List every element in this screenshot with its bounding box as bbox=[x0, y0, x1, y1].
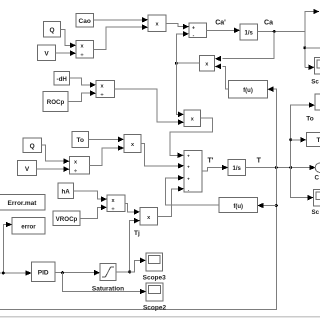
svg-text:+: + bbox=[187, 153, 190, 158]
svg-text:1/s: 1/s bbox=[233, 166, 242, 172]
svg-text:Scope2: Scope2 bbox=[143, 305, 167, 312]
sum block Ca' bbox=[189, 23, 207, 39]
wire branch up to top-right block bbox=[305, 9, 320, 32]
wire saturation output to node bbox=[116, 270, 131, 273]
svg-text:Cao: Cao bbox=[79, 18, 91, 25]
wire product to sum bbox=[166, 24, 189, 30]
fcn block f(u) Arrhenius (mirrored) bbox=[229, 81, 268, 99]
product block A (To*Q/V) bbox=[124, 135, 141, 153]
integrator 1/s (T) bbox=[228, 160, 246, 176]
wire product C output to node bbox=[175, 62, 200, 65]
product block B (heat of reaction) bbox=[184, 110, 201, 127]
wire node to error bbox=[3, 222, 12, 273]
divide block Q/V lower bbox=[70, 157, 90, 175]
wire V to divide bbox=[56, 50, 77, 56]
svg-text:Ca': Ca' bbox=[215, 20, 226, 27]
wire T branch to T display block bbox=[289, 137, 306, 143]
product block Tj bbox=[140, 208, 158, 226]
product block x (Cao*Q/V) bbox=[148, 15, 166, 32]
svg-text:Q: Q bbox=[49, 27, 54, 34]
svg-text:Error.mat: Error.mat bbox=[8, 200, 38, 207]
svg-text:-dH: -dH bbox=[57, 76, 68, 83]
product block C (mirrored, k*Ca) bbox=[199, 56, 214, 72]
wire divide to product bbox=[94, 24, 149, 49]
wire f(u) lower to sum T input3 bbox=[166, 175, 220, 205]
wire hA to divide bbox=[74, 191, 108, 202]
wire node up to sum minus bbox=[176, 31, 189, 63]
source block Q (flow) top bbox=[44, 22, 61, 38]
file block Error.mat bbox=[0, 195, 45, 211]
goto block (right edge, To label) bbox=[306, 94, 320, 123]
svg-text:PID: PID bbox=[38, 270, 49, 277]
scope block Scope3 bbox=[146, 253, 163, 271]
source block V lower bbox=[18, 161, 37, 176]
svg-text:V: V bbox=[25, 166, 30, 173]
svg-text:Q: Q bbox=[30, 143, 35, 150]
wire T up branch to right edge blocks bbox=[291, 102, 315, 167]
source block Cao bbox=[76, 14, 94, 28]
divide block Q/V top bbox=[76, 41, 94, 59]
wire To to product A bbox=[89, 137, 125, 143]
source block Q lower bbox=[23, 138, 42, 153]
source block To bbox=[72, 132, 89, 148]
fcn block f(u) lower (mirrored) bbox=[219, 198, 258, 213]
wire Tj feedback up from saturation node bbox=[130, 218, 140, 272]
source block -dH bbox=[54, 72, 70, 86]
controller block PID bbox=[32, 262, 56, 282]
svg-text:ROCp: ROCp bbox=[47, 99, 65, 106]
wire stub to right edge bbox=[305, 47, 320, 49]
divide block hA/VROCp bbox=[107, 195, 125, 212]
wire T line to outport bbox=[246, 165, 316, 171]
wire product A to sum T input2 bbox=[141, 144, 184, 169]
svg-text:÷: ÷ bbox=[111, 206, 114, 212]
wire sum to integrator bbox=[207, 28, 240, 34]
svg-text:T: T bbox=[317, 137, 320, 144]
source block ROCp bbox=[43, 92, 68, 112]
svg-text:÷: ÷ bbox=[74, 168, 77, 174]
wire V lower to divide bbox=[37, 166, 70, 172]
display block T (right edge) bbox=[306, 132, 320, 146]
svg-text:error: error bbox=[21, 223, 36, 230]
sum block T' (4 inputs) bbox=[184, 151, 202, 193]
svg-text:To: To bbox=[306, 116, 313, 123]
svg-text:Sc: Sc bbox=[311, 79, 319, 86]
wire divide hA to product Tj bbox=[125, 203, 140, 214]
scope block Scope2 bbox=[146, 283, 163, 301]
svg-text:+: + bbox=[192, 26, 195, 32]
source block hA bbox=[58, 183, 74, 199]
svg-text:V: V bbox=[44, 51, 49, 58]
scope block (Ca) right edge bbox=[305, 58, 320, 86]
source block VROCp bbox=[53, 211, 80, 226]
svg-text:÷: ÷ bbox=[100, 92, 103, 98]
svg-text:T': T' bbox=[208, 158, 214, 165]
svg-text:1/s: 1/s bbox=[245, 31, 254, 37]
svg-text:T: T bbox=[257, 158, 262, 165]
svg-text:VROCp: VROCp bbox=[56, 216, 78, 223]
wire -dH to divide bbox=[70, 78, 97, 88]
svg-text:Scope3: Scope3 bbox=[143, 275, 167, 282]
wire ROCp to divide bbox=[68, 90, 96, 101]
wire VROCp to divide bbox=[80, 205, 107, 219]
wire branch down right edge bbox=[303, 32, 306, 68]
svg-text:+: + bbox=[187, 176, 190, 181]
svg-text:+: + bbox=[187, 164, 190, 169]
wire node down to product B bbox=[176, 63, 184, 117]
svg-text:hA: hA bbox=[61, 189, 70, 196]
wire T branch into f(u) lower bbox=[258, 203, 277, 209]
saturation block bbox=[100, 264, 116, 281]
svg-text:÷: ÷ bbox=[80, 52, 83, 58]
wire T down branch to scope T bbox=[291, 168, 314, 201]
wire Ca line to right branch bbox=[258, 30, 305, 33]
wire sum T to integrator bbox=[202, 165, 228, 171]
wire Ca feedback down to product C bbox=[215, 32, 274, 62]
separator line bottom bbox=[0, 316, 320, 318]
svg-text:To: To bbox=[76, 137, 83, 144]
wire T down to f(u) T' input and bottom feedback bbox=[0, 168, 278, 310]
svg-text:f(u): f(u) bbox=[243, 88, 253, 94]
wire divide lower up to product A bbox=[90, 145, 125, 165]
wire T up to f(u) Arrhenius input bbox=[268, 86, 277, 167]
scope block (T) right edge bbox=[312, 190, 320, 217]
source block V top bbox=[38, 45, 56, 61]
integrator 1/s (Ca) bbox=[240, 24, 258, 40]
sink block error bbox=[12, 218, 45, 235]
wire node to scope3 bbox=[130, 258, 146, 272]
wire Q lower to divide bbox=[42, 145, 70, 164]
divide block dH/ROCp bbox=[96, 81, 115, 99]
wire Q to divide bbox=[61, 29, 77, 48]
wire divide dH to product B bbox=[115, 89, 185, 125]
svg-text:Ca: Ca bbox=[264, 20, 273, 27]
svg-text:Sc: Sc bbox=[312, 209, 320, 216]
wire left edge to PID bbox=[0, 270, 32, 276]
outport oval (right edge) bbox=[315, 163, 320, 182]
wire PID to saturation bbox=[55, 270, 100, 276]
wire f(u) output to product C bbox=[215, 64, 229, 90]
wire Cao to product bbox=[94, 17, 149, 23]
wire PID branch to scope2 bbox=[63, 273, 147, 295]
svg-text:Tj: Tj bbox=[134, 230, 140, 237]
svg-text:f(u): f(u) bbox=[233, 204, 243, 210]
wire product B to sum T input1 bbox=[170, 118, 213, 158]
wire product Tj to sum T input4 bbox=[158, 186, 185, 216]
svg-text:C: C bbox=[315, 175, 320, 182]
